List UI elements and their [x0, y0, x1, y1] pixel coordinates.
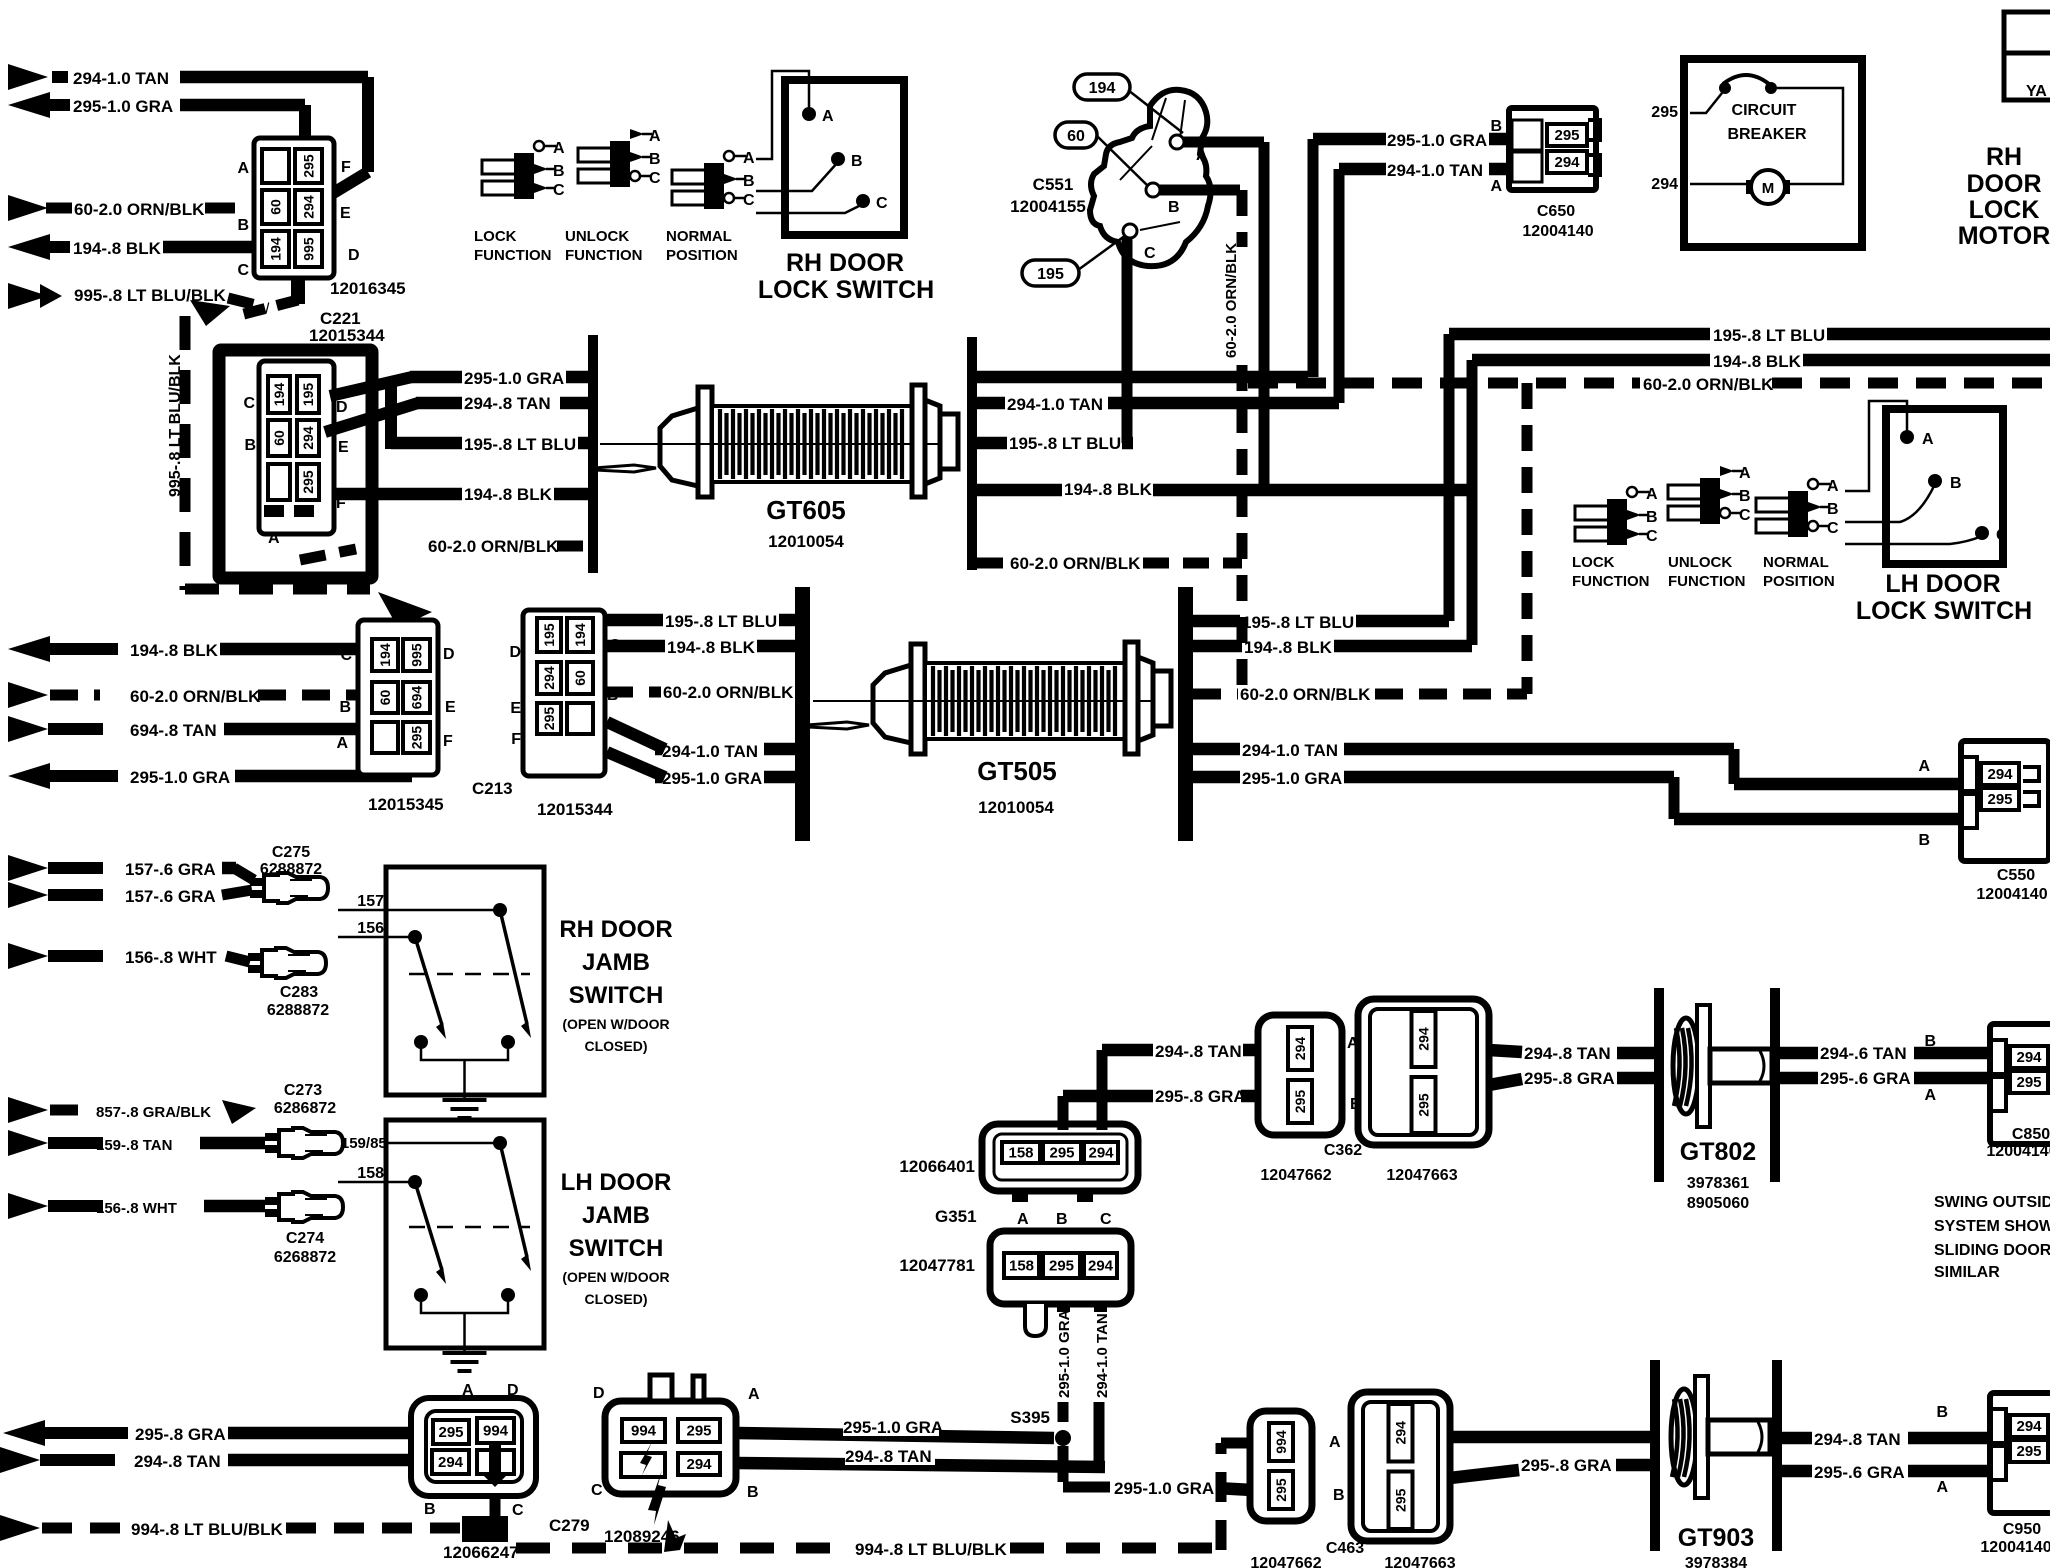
svg-text:60-2.0 ORN/BLK: 60-2.0 ORN/BLK [130, 687, 261, 706]
svg-text:994: 994 [483, 1423, 509, 1440]
svg-text:LOCK: LOCK [1969, 196, 2040, 224]
svg-text:CLOSED): CLOSED) [585, 1038, 648, 1054]
svg-text:A: A [1827, 478, 1839, 495]
svg-text:295: 295 [438, 1424, 463, 1441]
svg-text:295-1.0 GRA: 295-1.0 GRA [73, 97, 173, 116]
svg-text:C: C [553, 182, 565, 199]
svg-text:294-1.0 TAN: 294-1.0 TAN [1094, 1313, 1111, 1398]
svg-text:GT505: GT505 [977, 756, 1057, 786]
svg-text:60: 60 [271, 430, 287, 446]
svg-text:E: E [338, 439, 349, 456]
svg-text:294-.8 TAN: 294-.8 TAN [1155, 1042, 1242, 1061]
svg-text:D: D [348, 247, 360, 264]
svg-text:158: 158 [357, 1165, 384, 1182]
svg-text:C275: C275 [272, 844, 310, 861]
svg-text:295: 295 [686, 1423, 711, 1440]
svg-text:294: 294 [1292, 1037, 1308, 1061]
svg-text:295-1.0 GRA: 295-1.0 GRA [1387, 131, 1487, 150]
svg-text:194-.8 BLK: 194-.8 BLK [464, 485, 553, 504]
svg-text:60-2.0 ORN/BLK: 60-2.0 ORN/BLK [428, 537, 559, 556]
svg-text:G351: G351 [935, 1207, 977, 1226]
svg-text:C: C [1646, 528, 1658, 545]
svg-text:A: A [553, 140, 565, 157]
svg-text:B: B [649, 151, 661, 168]
svg-text:12066247: 12066247 [443, 1543, 519, 1562]
svg-text:S395: S395 [1010, 1408, 1050, 1427]
svg-text:NORMAL: NORMAL [1763, 554, 1829, 571]
svg-text:157-.6 GRA: 157-.6 GRA [125, 860, 216, 879]
svg-text:LOCK: LOCK [474, 228, 517, 245]
svg-text:194-.8 BLK: 194-.8 BLK [130, 641, 219, 660]
svg-text:60: 60 [268, 199, 284, 215]
svg-text:B: B [851, 153, 863, 170]
svg-text:295: 295 [301, 154, 317, 178]
svg-text:295: 295 [2016, 1443, 2041, 1460]
svg-text:C950: C950 [2003, 1521, 2041, 1538]
svg-text:C: C [237, 262, 249, 279]
svg-text:295-1.0 GRA: 295-1.0 GRA [464, 369, 564, 388]
svg-text:SWING OUTSIDE D: SWING OUTSIDE D [1934, 1194, 2050, 1211]
svg-text:195-.8 LT BLU: 195-.8 LT BLU [1242, 613, 1354, 632]
svg-text:POSITION: POSITION [1763, 573, 1835, 590]
svg-text:294: 294 [1088, 1258, 1114, 1275]
svg-text:A: A [1918, 758, 1930, 775]
svg-text:994: 994 [631, 1423, 657, 1440]
svg-text:194-.8 BLK: 194-.8 BLK [1244, 638, 1333, 657]
svg-text:B: B [1936, 1404, 1948, 1421]
svg-text:195-.8 LT BLU: 195-.8 LT BLU [665, 612, 777, 631]
svg-text:F: F [341, 159, 351, 176]
svg-text:A: A [462, 1382, 474, 1399]
svg-text:12047781: 12047781 [899, 1256, 975, 1275]
svg-text:A: A [822, 108, 834, 125]
svg-text:C: C [1144, 245, 1156, 262]
svg-text:12004140: 12004140 [1986, 1143, 2050, 1160]
svg-text:F: F [511, 731, 521, 748]
svg-text:SIMILAR: SIMILAR [1934, 1264, 2000, 1281]
svg-text:B: B [1056, 1211, 1068, 1228]
svg-text:12010054: 12010054 [978, 798, 1054, 817]
svg-text:FUNCTION: FUNCTION [1572, 573, 1650, 590]
svg-text:60-2.0 ORN/BLK: 60-2.0 ORN/BLK [1223, 243, 1240, 358]
svg-text:295-1.0 GRA: 295-1.0 GRA [130, 768, 230, 787]
svg-text:694-.8 TAN: 694-.8 TAN [130, 721, 217, 740]
svg-text:295-.6 GRA: 295-.6 GRA [1814, 1463, 1905, 1482]
svg-text:C: C [1996, 527, 2008, 544]
svg-text:A: A [1196, 147, 1208, 164]
svg-text:B: B [1739, 488, 1751, 505]
svg-text:295: 295 [1651, 104, 1678, 121]
svg-text:295: 295 [1393, 1488, 1409, 1512]
svg-text:12004155: 12004155 [1010, 197, 1086, 216]
svg-text:A: A [748, 1386, 760, 1403]
svg-text:A: A [1490, 178, 1502, 195]
svg-text:B: B [244, 437, 256, 454]
svg-text:156: 156 [357, 920, 384, 937]
svg-text:294-1.0 TAN: 294-1.0 TAN [1242, 741, 1338, 760]
svg-text:295: 295 [541, 707, 557, 731]
svg-text:295-.6 GRA: 295-.6 GRA [1820, 1069, 1911, 1088]
svg-text:A: A [1936, 1479, 1948, 1496]
svg-text:B: B [1950, 475, 1962, 492]
svg-text:60: 60 [377, 690, 393, 706]
svg-text:UNLOCK: UNLOCK [1668, 554, 1732, 571]
svg-text:LH DOOR: LH DOOR [561, 1169, 672, 1196]
svg-text:156-.8 WHT: 156-.8 WHT [125, 948, 217, 967]
svg-text:194: 194 [377, 643, 393, 667]
svg-text:12047663: 12047663 [1384, 1555, 1455, 1568]
svg-text:B: B [1827, 501, 1839, 518]
svg-text:194: 194 [1089, 80, 1116, 97]
svg-text:12010054: 12010054 [768, 532, 844, 551]
svg-text:C: C [743, 192, 755, 209]
svg-text:A: A [1922, 431, 1934, 448]
svg-text:A: A [1329, 1434, 1341, 1451]
svg-text:60-2.0 ORN/BLK: 60-2.0 ORN/BLK [1643, 375, 1774, 394]
svg-text:C650: C650 [1537, 203, 1575, 220]
svg-text:294: 294 [1088, 1145, 1114, 1162]
svg-text:295: 295 [409, 726, 425, 750]
svg-text:295: 295 [1416, 1093, 1432, 1117]
svg-text:RH: RH [1986, 143, 2022, 171]
svg-text:60: 60 [1067, 128, 1085, 145]
svg-text:C273: C273 [284, 1082, 322, 1099]
svg-text:A: A [268, 530, 280, 547]
svg-text:C274: C274 [286, 1230, 324, 1247]
svg-text:JAMB: JAMB [582, 949, 650, 976]
svg-text:294: 294 [541, 666, 557, 690]
svg-text:157: 157 [357, 893, 384, 910]
svg-text:294: 294 [686, 1456, 712, 1473]
svg-text:B: B [339, 699, 351, 716]
svg-text:294: 294 [1554, 154, 1580, 171]
svg-text:156-.8 WHT: 156-.8 WHT [96, 1200, 177, 1217]
svg-text:194-.8 BLK: 194-.8 BLK [1064, 480, 1153, 499]
svg-text:A: A [649, 128, 661, 145]
svg-text:C: C [876, 195, 888, 212]
svg-text:294-.6 TAN: 294-.6 TAN [1820, 1044, 1907, 1063]
svg-text:CLOSED): CLOSED) [585, 1291, 648, 1307]
svg-text:B: B [1490, 118, 1502, 135]
svg-text:C: C [649, 170, 661, 187]
svg-text:(OPEN W/DOOR: (OPEN W/DOOR [562, 1269, 669, 1285]
svg-text:994-.8 LT BLU/BLK: 994-.8 LT BLU/BLK [131, 1520, 283, 1539]
svg-text:294: 294 [2016, 1418, 2042, 1435]
svg-text:C: C [1739, 507, 1751, 524]
svg-text:295: 295 [1049, 1145, 1074, 1162]
svg-text:294-.8 TAN: 294-.8 TAN [464, 394, 551, 413]
svg-text:6288872: 6288872 [260, 861, 322, 878]
svg-text:GT903: GT903 [1678, 1524, 1754, 1552]
svg-text:12004140: 12004140 [1522, 223, 1593, 240]
svg-text:195: 195 [541, 623, 557, 647]
svg-text:294: 294 [1393, 1421, 1409, 1445]
svg-text:B: B [237, 217, 249, 234]
svg-text:A: A [336, 735, 348, 752]
svg-text:B: B [1168, 199, 1180, 216]
svg-text:294-1.0 TAN: 294-1.0 TAN [73, 69, 169, 88]
svg-text:C850: C850 [2012, 1126, 2050, 1143]
svg-text:3978384: 3978384 [1685, 1555, 1747, 1568]
svg-text:12047662: 12047662 [1250, 1555, 1321, 1568]
svg-text:C: C [591, 1482, 603, 1499]
svg-text:A: A [743, 150, 755, 167]
svg-text:12015344: 12015344 [309, 326, 385, 345]
svg-text:C551: C551 [1033, 175, 1074, 194]
svg-text:C550: C550 [1997, 867, 2035, 884]
svg-text:195-.8 LT BLU: 195-.8 LT BLU [1713, 326, 1825, 345]
svg-text:995: 995 [409, 643, 425, 667]
svg-text:12004140: 12004140 [1980, 1539, 2050, 1556]
svg-text:60-2.0 ORN/BLK: 60-2.0 ORN/BLK [1010, 554, 1141, 573]
svg-text:D: D [509, 644, 521, 661]
svg-text:B: B [743, 173, 755, 190]
svg-text:194-.8 BLK: 194-.8 BLK [1713, 352, 1802, 371]
svg-text:POSITION: POSITION [666, 247, 738, 264]
svg-text:GT605: GT605 [766, 495, 846, 525]
svg-text:295-.8 GRA: 295-.8 GRA [1524, 1069, 1615, 1088]
svg-text:295: 295 [300, 470, 316, 494]
svg-text:60-2.0 ORN/BLK: 60-2.0 ORN/BLK [74, 200, 205, 219]
svg-text:YA: YA [2026, 83, 2047, 100]
svg-text:12047663: 12047663 [1386, 1167, 1457, 1184]
svg-text:SLIDING DOOR (YA: SLIDING DOOR (YA [1934, 1242, 2050, 1259]
svg-text:E: E [510, 700, 521, 717]
svg-text:C: C [243, 395, 255, 412]
svg-text:LOCK: LOCK [1572, 554, 1615, 571]
svg-text:12047662: 12047662 [1260, 1167, 1331, 1184]
svg-text:C362: C362 [1324, 1142, 1362, 1159]
svg-text:E: E [340, 205, 351, 222]
svg-text:A: A [1017, 1211, 1029, 1228]
svg-text:194-.8 BLK: 194-.8 BLK [73, 239, 162, 258]
svg-text:C: C [1827, 520, 1839, 537]
svg-text:B: B [1924, 1033, 1936, 1050]
svg-text:60: 60 [572, 670, 588, 686]
svg-text:B: B [1918, 832, 1930, 849]
svg-text:C213: C213 [472, 779, 513, 798]
svg-text:294: 294 [438, 1454, 464, 1471]
svg-text:B: B [1333, 1487, 1345, 1504]
svg-text:3978361: 3978361 [1687, 1175, 1749, 1192]
svg-text:LOCK SWITCH: LOCK SWITCH [758, 276, 934, 304]
svg-text:E: E [445, 699, 456, 716]
svg-text:A: A [1924, 1087, 1936, 1104]
svg-text:SWITCH: SWITCH [569, 982, 664, 1009]
svg-text:994: 994 [1273, 1430, 1289, 1454]
svg-text:(OPEN W/DOOR: (OPEN W/DOOR [562, 1016, 669, 1032]
svg-text:C: C [512, 1502, 524, 1519]
svg-text:D: D [593, 1385, 605, 1402]
svg-text:B: B [424, 1501, 436, 1518]
svg-text:FUNCTION: FUNCTION [565, 247, 643, 264]
svg-text:295-.8 GRA: 295-.8 GRA [1521, 1456, 1612, 1475]
svg-text:294: 294 [300, 426, 316, 450]
svg-text:BREAKER: BREAKER [1727, 126, 1807, 143]
svg-text:12015344: 12015344 [537, 800, 613, 819]
svg-text:194: 194 [268, 237, 284, 261]
svg-text:295-1.0 GRA: 295-1.0 GRA [1056, 1309, 1073, 1398]
svg-text:12016345: 12016345 [330, 279, 406, 298]
svg-text:NORMAL: NORMAL [666, 228, 732, 245]
svg-text:60-2.0 ORN/BLK: 60-2.0 ORN/BLK [1240, 685, 1371, 704]
svg-text:M: M [1762, 180, 1775, 197]
svg-text:12004140: 12004140 [1976, 886, 2047, 903]
svg-text:FUNCTION: FUNCTION [474, 247, 552, 264]
svg-text:295: 295 [1049, 1258, 1074, 1275]
svg-text:159-.8 TAN: 159-.8 TAN [96, 1137, 172, 1154]
svg-text:295: 295 [1273, 1478, 1289, 1502]
svg-text:8905060: 8905060 [1687, 1195, 1749, 1212]
svg-text:D: D [443, 646, 455, 663]
svg-text:60-2.0 ORN/BLK: 60-2.0 ORN/BLK [663, 683, 794, 702]
svg-text:995: 995 [301, 237, 317, 261]
svg-text:994-.8 LT BLU/BLK: 994-.8 LT BLU/BLK [855, 1540, 1007, 1559]
svg-text:RH DOOR: RH DOOR [786, 249, 904, 277]
svg-text:A: A [1646, 486, 1658, 503]
svg-text:F: F [443, 733, 453, 750]
svg-text:B: B [747, 1484, 759, 1501]
svg-text:CIRCUIT: CIRCUIT [1732, 102, 1797, 119]
svg-text:GT802: GT802 [1680, 1138, 1756, 1166]
svg-text:B: B [553, 163, 565, 180]
svg-text:A: A [237, 160, 249, 177]
svg-text:295-.8 GRA: 295-.8 GRA [1155, 1087, 1246, 1106]
svg-text:294: 294 [1651, 176, 1678, 193]
svg-text:195: 195 [1037, 266, 1064, 283]
svg-text:194-.8 BLK: 194-.8 BLK [667, 638, 756, 657]
svg-text:295-.8 GRA: 295-.8 GRA [135, 1425, 226, 1444]
svg-text:D: D [336, 399, 348, 416]
svg-text:SYSTEM SHOWN: SYSTEM SHOWN [1934, 1218, 2050, 1235]
svg-text:LH DOOR: LH DOOR [1885, 570, 2000, 598]
svg-text:295: 295 [2016, 1074, 2041, 1091]
svg-text:DOOR: DOOR [1967, 170, 2042, 198]
svg-text:12066401: 12066401 [899, 1157, 975, 1176]
svg-text:195-.8 LT BLU: 195-.8 LT BLU [464, 435, 576, 454]
svg-text:294-1.0 TAN: 294-1.0 TAN [1387, 161, 1483, 180]
svg-text:FUNCTION: FUNCTION [1668, 573, 1746, 590]
svg-text:C: C [1100, 1211, 1112, 1228]
svg-text:295-1.0 GRA: 295-1.0 GRA [1114, 1479, 1214, 1498]
svg-text:995-.8 LT BLU/BLK: 995-.8 LT BLU/BLK [167, 354, 184, 497]
svg-text:294: 294 [301, 195, 317, 219]
svg-text:6288872: 6288872 [267, 1002, 329, 1019]
svg-text:D: D [507, 1382, 519, 1399]
svg-text:294-1.0 TAN: 294-1.0 TAN [662, 742, 758, 761]
svg-text:294: 294 [1416, 1027, 1432, 1051]
svg-text:6286872: 6286872 [274, 1100, 336, 1117]
svg-text:294-.8 TAN: 294-.8 TAN [1524, 1044, 1611, 1063]
svg-text:194: 194 [572, 623, 588, 647]
svg-text:295: 295 [1292, 1090, 1308, 1114]
svg-text:694: 694 [409, 686, 425, 710]
svg-text:6268872: 6268872 [274, 1249, 336, 1266]
svg-text:294-1.0 TAN: 294-1.0 TAN [1007, 395, 1103, 414]
svg-text:294: 294 [1987, 766, 2013, 783]
svg-text:295: 295 [1554, 127, 1579, 144]
svg-text:194: 194 [271, 383, 287, 407]
svg-text:B: B [1646, 509, 1658, 526]
svg-text:SWITCH: SWITCH [569, 1235, 664, 1262]
svg-text:857-.8 GRA/BLK: 857-.8 GRA/BLK [96, 1104, 211, 1121]
svg-text:294: 294 [2016, 1049, 2042, 1066]
svg-text:295-1.0 GRA: 295-1.0 GRA [843, 1418, 943, 1437]
svg-text:C283: C283 [280, 984, 318, 1001]
svg-text:158: 158 [1008, 1145, 1033, 1162]
svg-text:157-.6 GRA: 157-.6 GRA [125, 887, 216, 906]
svg-text:295: 295 [1987, 791, 2012, 808]
svg-text:295-1.0 GRA: 295-1.0 GRA [662, 769, 762, 788]
svg-text:C279: C279 [549, 1516, 590, 1535]
svg-text:295-1.0 GRA: 295-1.0 GRA [1242, 769, 1342, 788]
svg-text:294-.8 TAN: 294-.8 TAN [1814, 1430, 1901, 1449]
svg-text:294-.8 TAN: 294-.8 TAN [134, 1452, 221, 1471]
svg-text:C: C [340, 647, 352, 664]
svg-text:195: 195 [300, 383, 316, 407]
svg-text:MOTOR: MOTOR [1958, 222, 2050, 250]
svg-text:JAMB: JAMB [582, 1202, 650, 1229]
svg-text:12015345: 12015345 [368, 795, 444, 814]
svg-text:LOCK SWITCH: LOCK SWITCH [1856, 597, 2032, 625]
svg-text:UNLOCK: UNLOCK [565, 228, 629, 245]
svg-text:158: 158 [1009, 1258, 1034, 1275]
svg-text:195-.8 LT BLU: 195-.8 LT BLU [1009, 434, 1121, 453]
svg-text:294-.8 TAN: 294-.8 TAN [845, 1447, 932, 1466]
svg-text:RH DOOR: RH DOOR [559, 916, 672, 943]
svg-text:A: A [1739, 465, 1751, 482]
